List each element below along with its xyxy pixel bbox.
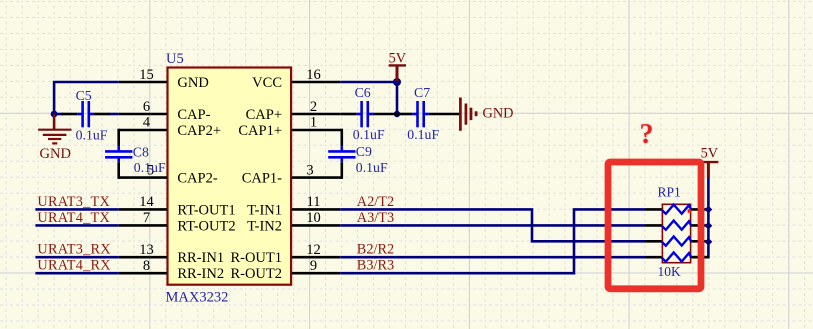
- pin 6 stub: [119, 113, 167, 116]
- svg-text:A2/T2: A2/T2: [357, 194, 394, 210]
- svg-text:MAX3232: MAX3232: [166, 290, 229, 306]
- pin 10 stub: [292, 224, 340, 227]
- svg-text:GND: GND: [40, 146, 71, 162]
- pin 15 stub: [119, 81, 167, 84]
- pin 12 stub: [292, 256, 340, 259]
- svg-text:URAT3_RX: URAT3_RX: [37, 242, 111, 258]
- wire 5V right vertical: [690, 177, 709, 258]
- svg-text:C8: C8: [133, 144, 149, 159]
- pin 16 stub: [292, 81, 340, 84]
- svg-text:C9: C9: [356, 144, 372, 159]
- capacitor C5 pins: [62, 113, 110, 116]
- svg-text:RR-IN2: RR-IN2: [177, 266, 224, 282]
- svg-text:0.1uF: 0.1uF: [353, 127, 385, 142]
- svg-text:14: 14: [139, 194, 154, 210]
- pin 13 stub: [119, 256, 167, 259]
- svg-text:T-IN1: T-IN1: [247, 202, 282, 218]
- svg-text:C6: C6: [355, 85, 371, 100]
- svg-text:URAT4_RX: URAT4_RX: [37, 258, 111, 274]
- svg-text:11: 11: [307, 194, 321, 210]
- junction diamond 3: [705, 238, 713, 246]
- svg-text:RT-OUT1: RT-OUT1: [177, 202, 235, 218]
- svg-text:4: 4: [143, 115, 151, 131]
- wire pin12 to RP1 pin4: [340, 256, 646, 259]
- svg-text:A3/T3: A3/T3: [357, 210, 394, 226]
- svg-text:5V: 5V: [389, 50, 407, 66]
- junction dot row B / 5V: [394, 111, 400, 117]
- annotation red box: [608, 162, 701, 289]
- wire pin16 to 5V stem: [340, 81, 397, 84]
- wire row B left: [54, 113, 63, 116]
- wire pin10 to RP1 pin2: [340, 224, 646, 227]
- svg-text:CAP1-: CAP1-: [242, 171, 282, 187]
- svg-text:RT-OUT2: RT-OUT2: [177, 218, 235, 234]
- svg-text:8: 8: [143, 258, 150, 274]
- capacitor C8 plates: [105, 146, 132, 162]
- svg-text:6: 6: [143, 99, 150, 115]
- svg-text:5V: 5V: [701, 145, 719, 161]
- capacitor C7 plates: [412, 101, 429, 127]
- wire pin9 to riser2 to RP1 pin1: [340, 209, 646, 273]
- wire between C5 and pin 6: [109, 113, 119, 116]
- red marker dot: [688, 209, 691, 213]
- svg-text:CAP1+: CAP1+: [238, 123, 282, 139]
- svg-text:RP1: RP1: [658, 185, 681, 200]
- svg-text:RR-IN1: RR-IN1: [177, 250, 224, 266]
- svg-text:T-IN2: T-IN2: [247, 218, 282, 234]
- svg-text:GND: GND: [483, 106, 514, 122]
- svg-text:9: 9: [310, 258, 317, 274]
- ground GND (earth) left: [38, 114, 71, 143]
- pin 7 stub: [119, 224, 167, 227]
- power 5V right: [698, 162, 719, 177]
- svg-text:12: 12: [306, 242, 321, 258]
- svg-text:C5: C5: [76, 88, 92, 103]
- capacitor C6 plates: [356, 101, 373, 127]
- svg-text:2: 2: [310, 99, 317, 115]
- svg-text:7: 7: [143, 210, 150, 226]
- svg-text:0.1uF: 0.1uF: [76, 128, 108, 143]
- svg-text:URAT4_TX: URAT4_TX: [37, 210, 110, 226]
- wire 5V stem vertical: [396, 81, 399, 115]
- svg-text:URAT3_TX: URAT3_TX: [37, 194, 110, 210]
- wire row G left: [35, 256, 118, 259]
- svg-text:0.1uF: 0.1uF: [407, 127, 439, 142]
- pin 1 stub: [292, 129, 342, 132]
- svg-text:15: 15: [139, 67, 154, 83]
- resistor RP1-b zigzag: [662, 221, 691, 230]
- resistor RP1-a zigzag: [662, 205, 691, 214]
- svg-text:3: 3: [306, 163, 313, 179]
- svg-text:GND: GND: [177, 75, 208, 91]
- svg-text:R-OUT1: R-OUT1: [230, 250, 282, 266]
- junction diamond 2: [705, 222, 713, 230]
- junction diamond 1: [705, 206, 713, 214]
- pin 2 stub: [292, 113, 341, 116]
- svg-text:R-OUT2: R-OUT2: [230, 266, 282, 282]
- pin 14 stub: [119, 208, 167, 211]
- capacitor C6 pins: [341, 113, 397, 116]
- pin 8 stub: [119, 272, 167, 275]
- svg-text:VCC: VCC: [252, 75, 282, 91]
- ic U5 body: [168, 68, 292, 285]
- ground GND (power ground, rotated) right: [460, 98, 476, 131]
- RP1 pin stubs: [646, 209, 709, 257]
- capacitor C5 plates: [77, 101, 94, 127]
- pin 11 stub: [292, 208, 340, 211]
- pin 5 stub: [119, 176, 167, 179]
- svg-text:B3/R3: B3/R3: [357, 258, 394, 274]
- capacitor C9 plates: [328, 146, 355, 162]
- junction dot pin16/5V: [393, 78, 401, 86]
- svg-text:0.1uF: 0.1uF: [356, 160, 388, 175]
- svg-text:U5: U5: [166, 51, 184, 67]
- svg-text:C7: C7: [414, 85, 430, 100]
- resistor RP1-d zigzag: [662, 252, 691, 261]
- svg-text:CAP2+: CAP2+: [177, 123, 221, 139]
- pin 4 stub: [119, 129, 167, 132]
- capacitor C7 pins: [397, 113, 460, 116]
- svg-text:13: 13: [139, 242, 154, 258]
- svg-text:CAP-: CAP-: [177, 107, 210, 123]
- wire pin11 to riser1: [340, 209, 646, 241]
- pin names inside IC: [177, 75, 282, 282]
- junction dot at GND corner: [51, 111, 58, 118]
- resistor RP1-c zigzag: [662, 237, 691, 246]
- svg-text:10: 10: [306, 210, 321, 226]
- capacitor C9 pins: [340, 129, 343, 179]
- IC pin stubs (black): [119, 82, 342, 273]
- wire row E left: [35, 208, 118, 211]
- svg-text:CAP+: CAP+: [246, 107, 282, 123]
- svg-text:B2/R2: B2/R2: [357, 242, 394, 258]
- wire row H left: [35, 272, 118, 275]
- svg-text:10K: 10K: [658, 264, 682, 279]
- svg-text:CAP2-: CAP2-: [177, 171, 217, 187]
- wire row A left to corner: [54, 82, 119, 114]
- svg-text:16: 16: [306, 67, 321, 83]
- svg-text:0.1uF: 0.1uF: [134, 160, 166, 175]
- power 5V left: [389, 65, 406, 81]
- RP1 body: [662, 204, 690, 262]
- wire row F left: [35, 224, 118, 227]
- pin 9 stub: [292, 272, 340, 275]
- pin numbers: [139, 67, 321, 274]
- svg-text:?: ?: [640, 119, 654, 150]
- capacitor C8 pins: [117, 129, 120, 179]
- pin 3 stub: [292, 176, 342, 179]
- svg-text:1: 1: [310, 115, 317, 131]
